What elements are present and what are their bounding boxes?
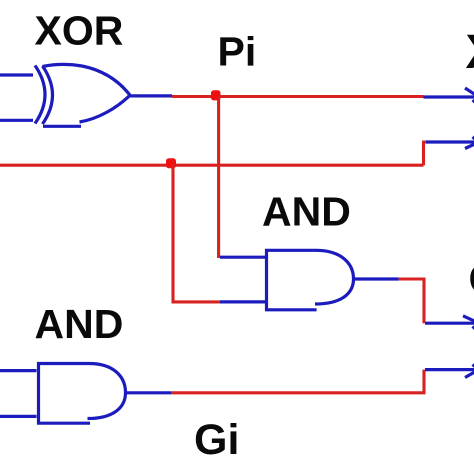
wire carry output arrow (blue) (425, 322, 474, 325)
wire Pi output arrow (blue) (424, 95, 474, 98)
AND gate U3 (bottom) (37, 363, 126, 424)
wire Ci step up (red) (424, 142, 428, 165)
junction on net Ci (166, 158, 176, 168)
wire input A to XOR (0, 73, 33, 76)
wire Gi horizontal (red, step up) (172, 370, 424, 393)
wire Ci output arrow (blue) (426, 140, 474, 143)
svg-text:X: X (466, 26, 474, 79)
wire input B to XOR (0, 119, 33, 122)
wire AND2 output (red, step down) (399, 279, 424, 323)
wire AND3 output (blue) (126, 391, 172, 394)
svg-text:AND: AND (35, 301, 124, 347)
wire Ci drop (red vertical from junction) (173, 165, 220, 302)
wire Pi drop to AND input (red vertical) (217, 97, 220, 259)
wire AND2 output (blue) (354, 277, 399, 280)
wire Gi output arrow (blue) (425, 368, 474, 371)
wire XOR output (blue segment) (129, 94, 172, 97)
svg-text:Gi: Gi (194, 416, 239, 464)
wire Pi horizontal (red) (172, 95, 424, 98)
svg-text:AND: AND (262, 189, 351, 235)
wire to AND bottom input (blue) (220, 300, 266, 303)
AND gate U2 (middle) (265, 249, 354, 310)
svg-text:XOR: XOR (35, 7, 124, 53)
junction on net Pi (211, 90, 221, 100)
svg-text:C: C (469, 255, 474, 302)
wire to AND top input (blue) (220, 256, 266, 259)
wire input B to AND3 (0, 415, 37, 418)
XOR gate U1 (35, 64, 130, 126)
wire Ci horizontal (red) (0, 164, 424, 167)
svg-text:Pi: Pi (218, 29, 257, 75)
wire input A to AND3 (0, 369, 37, 372)
